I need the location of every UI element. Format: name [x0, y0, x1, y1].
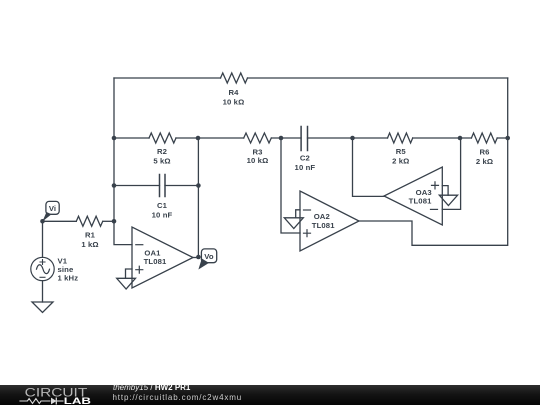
svg-text:1 kHz: 1 kHz — [58, 274, 79, 283]
ground (OA3) — [439, 195, 457, 205]
svg-text:LAB: LAB — [64, 396, 91, 405]
svg-text:10 nF: 10 nF — [295, 163, 316, 172]
svg-text:2 kΩ: 2 kΩ — [476, 157, 493, 166]
wire: OA1 + input to ground — [126, 269, 133, 278]
svg-text:R5: R5 — [396, 147, 407, 156]
wire: input line y=221.3 from Vi node to R1 — [43, 220, 77, 222]
wire: left vertical x=114 from top wire to OA1 inverting input — [114, 78, 132, 245]
wire: OA1 output to node — [193, 257, 198, 259]
wire: input line from R1 to left vertical — [103, 220, 114, 222]
svg-text:1 kΩ: 1 kΩ — [81, 240, 98, 249]
wire: middle line y=138 from R6 to right vertical — [497, 137, 507, 139]
svg-text:TL081: TL081 — [312, 221, 335, 230]
wire: middle line y=138 between C2 and R5 — [308, 137, 388, 139]
footer text — [113, 384, 190, 392]
svg-text:10 kΩ: 10 kΩ — [223, 98, 245, 107]
svg-text:R6: R6 — [479, 148, 489, 157]
wire: OA2 - input to ground — [296, 210, 300, 218]
svg-text:R2: R2 — [157, 147, 167, 156]
wire: middle line y=138 left segment — [114, 137, 149, 139]
logo resistor+diode line — [19, 398, 63, 405]
resistor R1 — [76, 216, 102, 249]
wire: OA3 - input to R5/R6 node — [442, 138, 460, 209]
resistor R6 — [471, 133, 497, 166]
wire: middle line y=138 between R5 and R6 — [413, 137, 472, 139]
svg-text:10 kΩ: 10 kΩ — [247, 156, 269, 165]
wire: right vertical x=507.7 down to OA2 output path — [359, 78, 508, 245]
svg-text:C2: C2 — [300, 154, 310, 163]
resistor R3 — [244, 133, 272, 165]
wire: middle line y=138 between R3 and C2 — [272, 137, 302, 139]
wire: top feedback wire y=78 from R4 to right vertical — [248, 77, 508, 79]
ground (V1) — [32, 302, 53, 313]
node: junction dots — [40, 136, 510, 260]
svg-text:TL081: TL081 — [144, 257, 167, 266]
svg-text:5 kΩ: 5 kΩ — [153, 157, 170, 166]
ground (OA1) — [117, 278, 136, 289]
node Vo flag — [198, 249, 216, 270]
wire: branch from middle line down to OA2 + input — [281, 138, 300, 233]
wire: C1 line y=185.5 right of plates — [165, 185, 198, 187]
wire: middle line y=138 between R2 and R3 — [176, 137, 244, 139]
voltage source V1 — [31, 221, 78, 302]
op-amp OA3 (mirrored) — [384, 167, 442, 225]
svg-text:R4: R4 — [228, 88, 239, 97]
svg-text:10 nF: 10 nF — [152, 211, 173, 220]
footer bar — [0, 385, 540, 405]
wire: vertical x=198.4 output node up to middle line — [197, 138, 199, 257]
svg-text:R1: R1 — [85, 231, 96, 240]
op-amp OA2 — [300, 191, 359, 251]
wire: branch from middle line down to OA3 output — [353, 138, 385, 196]
capacitor C2 — [295, 127, 316, 173]
CircuitLab logo — [0, 385, 110, 405]
svg-text:C1: C1 — [157, 201, 168, 210]
capacitor C1 — [152, 175, 173, 220]
resistor R4 — [221, 73, 248, 107]
wire: OA3 + input to ground — [442, 186, 448, 196]
op-amp OA1 — [132, 227, 193, 288]
svg-text:2 kΩ: 2 kΩ — [392, 157, 409, 166]
resistor R5 — [388, 133, 413, 166]
svg-text:OA2: OA2 — [314, 212, 330, 221]
wire: C1 line y=185.5 left of plates — [114, 185, 160, 187]
resistor R2 — [149, 133, 176, 166]
wire: top feedback wire y=78 from left vertical to R4 — [114, 77, 221, 79]
ground (OA2) — [284, 218, 303, 229]
svg-text:Vi: Vi — [49, 204, 56, 213]
svg-text:Vo: Vo — [204, 252, 214, 261]
node Vi flag — [42, 201, 59, 221]
svg-text:TL081: TL081 — [409, 197, 432, 206]
